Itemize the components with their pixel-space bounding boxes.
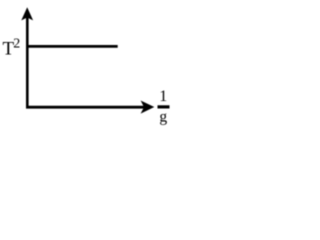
svg-text:2: 2 — [13, 37, 20, 52]
svg-text:g: g — [159, 109, 167, 126]
svg-text:1: 1 — [159, 88, 167, 105]
